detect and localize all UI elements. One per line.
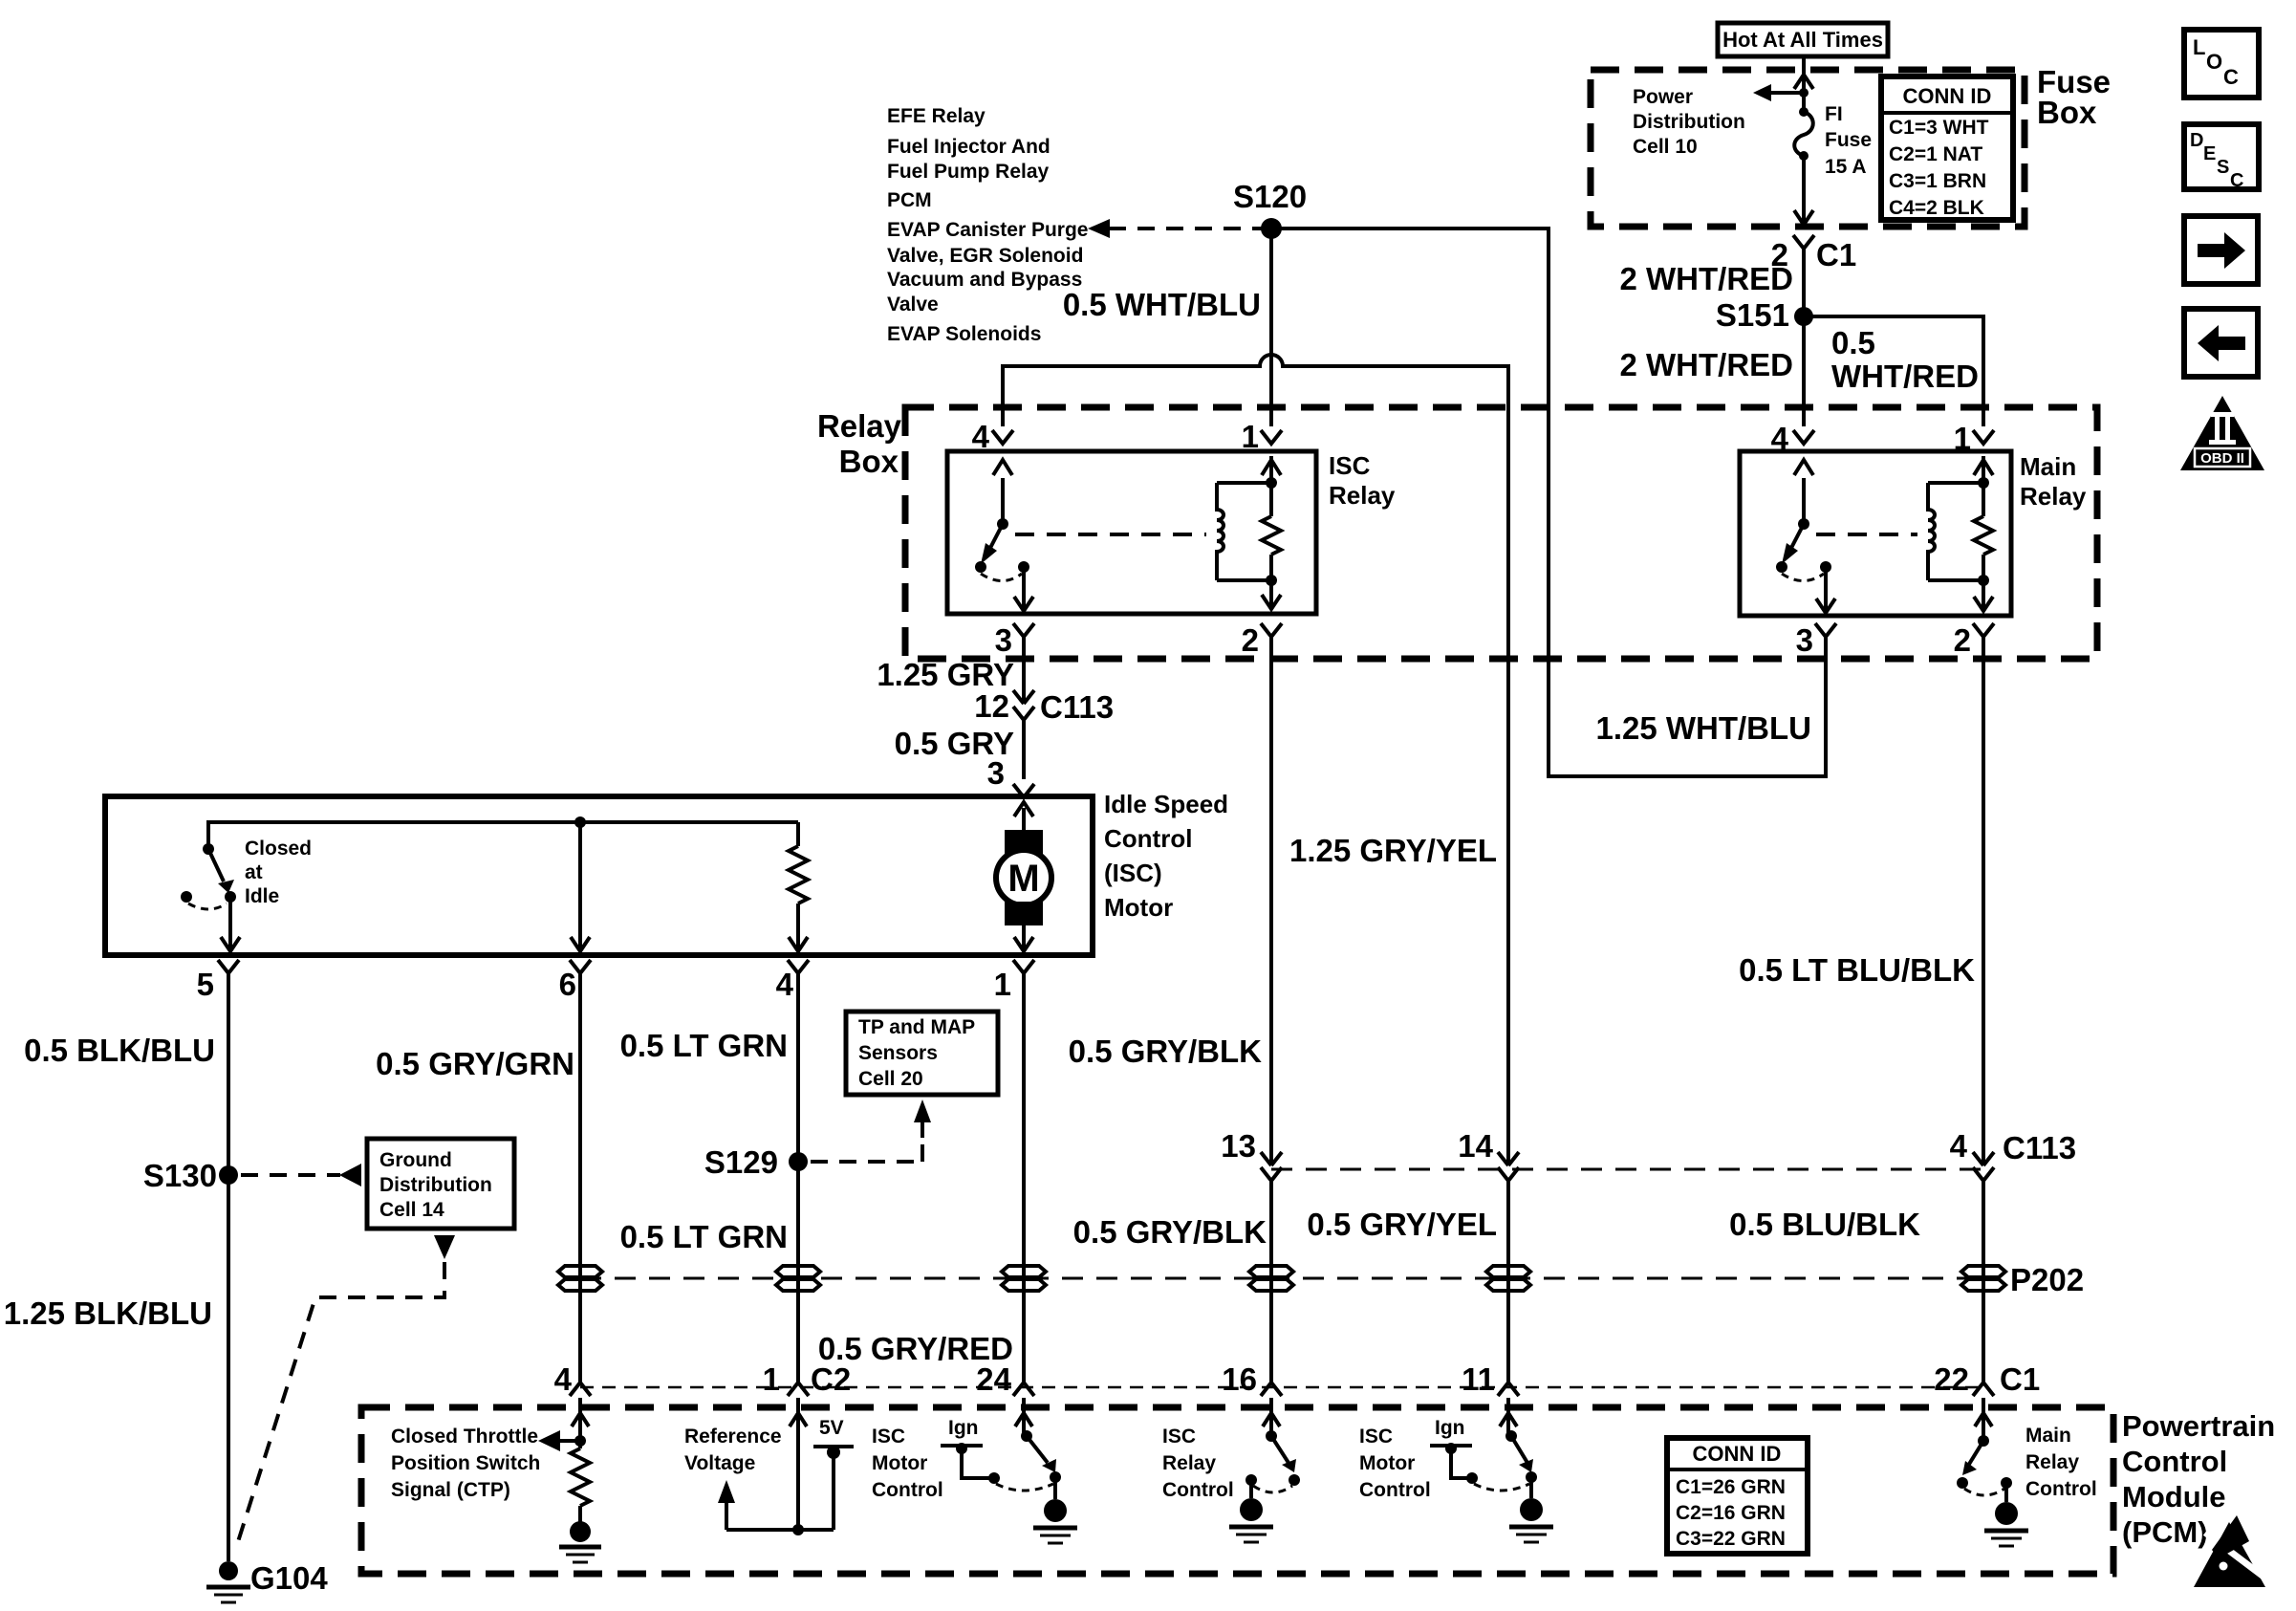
svg-text:3: 3 — [1796, 622, 1813, 658]
svg-text:2: 2 — [1242, 622, 1259, 658]
svg-text:Ground: Ground — [379, 1149, 452, 1171]
label Powertrain Control Module (PCM) — [2122, 1409, 2275, 1549]
connector C113 pin 13 glyph — [1221, 1128, 1282, 1181]
PCM box (dashed) — [361, 1407, 2113, 1574]
text EVAP loads list — [887, 105, 1088, 345]
text Closed at Idle — [245, 838, 312, 907]
wire ISC relay pin 3 down to connector C113 pin 12 — [1022, 637, 1026, 704]
PCM pin 16 chevron — [1261, 1382, 1282, 1396]
fuse box (dashed) — [1591, 70, 2025, 227]
svg-text:PCM: PCM — [887, 189, 932, 211]
CTP signal input (PCM pin 4) — [538, 1398, 589, 1451]
svg-text:Cell 10: Cell 10 — [1633, 136, 1698, 158]
ground G104 — [206, 1560, 328, 1602]
ISC relay switch output wire to pin 3 — [1014, 572, 1033, 612]
ISC relay coil resistor wire pin1-pin2 — [1262, 456, 1281, 609]
svg-text:OBD II: OBD II — [2200, 450, 2244, 467]
svg-text:0.5 BLU/BLK: 0.5 BLU/BLK — [1729, 1207, 1920, 1242]
wire ISC motor pin 1 down to PCM pin 24 — [1022, 973, 1026, 1382]
main relay pin 3 chevron — [1815, 623, 1836, 637]
svg-text:WHT/RED: WHT/RED — [1831, 359, 1979, 394]
svg-text:C1: C1 — [2000, 1361, 2040, 1397]
ISC motor box — [105, 796, 1093, 955]
dashed reference arrow from S120 to EVAP loads — [1088, 219, 1262, 238]
svg-text:G104: G104 — [250, 1560, 328, 1596]
svg-text:Control: Control — [1104, 824, 1192, 853]
label Idle Speed Control (ISC) Motor — [1104, 790, 1228, 922]
main relay switch — [1776, 460, 1831, 581]
text ISC Relay Control — [1162, 1426, 1234, 1501]
svg-text:C1=26 GRN: C1=26 GRN — [1676, 1476, 1786, 1498]
label Relay Box — [817, 408, 902, 479]
svg-text:Cell 14: Cell 14 — [379, 1199, 444, 1221]
svg-text:C113: C113 — [2003, 1130, 2076, 1165]
svg-text:4: 4 — [776, 967, 794, 1002]
P202 pass-through at GRY/RED column — [1002, 1266, 1046, 1291]
label Fuse Box — [2037, 64, 2111, 130]
svg-text:24: 24 — [976, 1361, 1011, 1397]
svg-text:1: 1 — [1242, 419, 1259, 454]
svg-text:Module: Module — [2122, 1480, 2226, 1513]
svg-text:Main: Main — [2025, 1425, 2071, 1447]
svg-text:ISC: ISC — [1329, 451, 1371, 480]
svg-text:0.5 BLK/BLU: 0.5 BLK/BLU — [24, 1033, 215, 1068]
CTP switch in ISC motor — [181, 843, 236, 909]
svg-text:L: L — [2193, 35, 2205, 59]
svg-text:11: 11 — [1462, 1361, 1495, 1397]
wire bus to pin 6 — [571, 822, 590, 951]
ISC relay coil (inductor) — [1217, 483, 1271, 580]
svg-text:4: 4 — [554, 1361, 573, 1397]
main relay coil activation dashed link — [1816, 533, 1917, 536]
svg-text:Position Switch: Position Switch — [391, 1452, 540, 1474]
wire CTP switch to pin 5 — [221, 897, 240, 951]
svg-text:1: 1 — [994, 967, 1011, 1002]
svg-text:Relay: Relay — [817, 408, 902, 444]
label ISC Relay — [1329, 451, 1396, 510]
svg-text:Sensors: Sensors — [858, 1042, 938, 1064]
svg-text:Reference: Reference — [684, 1426, 782, 1448]
svg-text:1.25 WHT/BLU: 1.25 WHT/BLU — [1595, 710, 1811, 746]
icon OBD II triangle — [2180, 396, 2264, 470]
dashed reference from S130 to Ground Distribution — [241, 1164, 361, 1186]
svg-text:Cell 20: Cell 20 — [858, 1068, 923, 1090]
svg-text:Motor: Motor — [1359, 1452, 1415, 1474]
svg-text:14: 14 — [1458, 1128, 1493, 1164]
svg-text:ISC: ISC — [872, 1426, 905, 1448]
svg-text:O: O — [2206, 50, 2222, 74]
svg-text:0.5 LT GRN: 0.5 LT GRN — [620, 1028, 788, 1063]
wire: battery feed from Hot At All Times into fuse box — [1802, 56, 1806, 112]
connector C113 pin 4 glyph — [1950, 1128, 2076, 1181]
ISC motor pin 4 chevron — [788, 960, 809, 973]
svg-text:2: 2 — [1954, 622, 1971, 658]
svg-text:(PCM): (PCM) — [2122, 1515, 2208, 1549]
svg-text:0.5 GRY/BLK: 0.5 GRY/BLK — [1069, 1034, 1262, 1069]
svg-text:1.25 BLK/BLU: 1.25 BLK/BLU — [4, 1295, 212, 1331]
svg-text:ISC: ISC — [1359, 1426, 1393, 1448]
svg-text:Control: Control — [2025, 1478, 2097, 1500]
svg-text:5V: 5V — [819, 1417, 844, 1439]
icon arrow left — [2184, 309, 2258, 377]
label FI Fuse 15 A — [1825, 103, 1872, 178]
wire S120 down to ISC relay pin 1 — [1269, 229, 1273, 426]
svg-text:1.25 GRY/YEL: 1.25 GRY/YEL — [1289, 833, 1497, 868]
wire S151 branch to main relay pin 1 — [1804, 316, 1983, 426]
arrow below Ground Distribution box — [434, 1235, 455, 1259]
svg-text:(ISC): (ISC) — [1104, 859, 1162, 887]
splice S130 — [143, 1158, 238, 1193]
svg-text:C1: C1 — [1816, 237, 1856, 272]
splice S129 — [704, 1144, 808, 1180]
connector C113 dashed line — [1271, 1168, 1983, 1171]
Hot At All Times box — [1718, 23, 1888, 56]
PCM pin 11 chevron — [1498, 1382, 1519, 1396]
svg-text:Motor: Motor — [872, 1452, 927, 1474]
svg-text:Control: Control — [1162, 1479, 1234, 1501]
branch wire to Power Distribution — [1768, 91, 1804, 95]
ISC relay pin 2 chevron — [1261, 623, 1282, 637]
text ISC Motor Control (pin 24) — [872, 1426, 943, 1501]
svg-text:Control: Control — [2122, 1445, 2227, 1478]
svg-text:13: 13 — [1221, 1128, 1256, 1164]
ground (CTP resistor) — [559, 1521, 601, 1562]
svg-text:0.5 GRY/BLK: 0.5 GRY/BLK — [1073, 1214, 1267, 1250]
svg-text:1.25 GRY: 1.25 GRY — [877, 657, 1014, 692]
main relay pin 4 chevron — [1793, 430, 1814, 444]
P202 pass-through at LT GRN column — [776, 1266, 820, 1291]
ISC relay pin 3 chevron — [1013, 623, 1034, 637]
svg-text:C113: C113 — [1040, 689, 1114, 725]
ISC motor pin 5 chevron — [218, 960, 239, 973]
svg-text:Power: Power — [1633, 86, 1693, 108]
down arrowhead above fuse box edge — [1794, 210, 1813, 225]
svg-text:0.5 GRY/GRN: 0.5 GRY/GRN — [376, 1046, 574, 1081]
pin label 22 C1 (PCM) — [1934, 1361, 2040, 1397]
ISC motor pin 1 chevron — [1013, 960, 1034, 973]
svg-text:C1=3 WHT: C1=3 WHT — [1889, 117, 1989, 139]
svg-text:Relay: Relay — [1162, 1452, 1216, 1474]
svg-text:E: E — [2203, 143, 2216, 164]
svg-text:Distribution: Distribution — [1633, 111, 1745, 133]
main relay control driver (PCM pin 22) — [1957, 1398, 2012, 1495]
CONN ID table (PCM) — [1667, 1438, 1808, 1554]
dashed route Ground Distribution to G104 — [235, 1262, 444, 1551]
svg-text:EFE Relay: EFE Relay — [887, 105, 986, 127]
main relay pin 2 chevron — [1973, 623, 1994, 637]
CTP pull-up resistor — [571, 1448, 590, 1522]
svg-text:at: at — [245, 861, 263, 883]
text Reference Voltage — [684, 1426, 782, 1474]
svg-text:S: S — [2217, 157, 2229, 178]
svg-text:1: 1 — [763, 1361, 780, 1397]
main relay switch output wire to pin 3 — [1816, 572, 1835, 614]
svg-text:C2: C2 — [811, 1361, 851, 1397]
up arrowhead on feed wire — [1794, 75, 1813, 89]
P202 pass-through at BLU/BLK column — [1961, 1266, 2005, 1291]
reference voltage input (PCM pin 1) — [726, 1398, 834, 1535]
svg-text:C2=16 GRN: C2=16 GRN — [1676, 1502, 1786, 1524]
svg-text:TP and MAP: TP and MAP — [858, 1016, 975, 1038]
TP and MAP Sensors Cell 20 box — [846, 1012, 998, 1095]
wire pin 4 down to PCM pin 1 — [796, 973, 800, 1382]
main relay coil (inductor) — [1928, 483, 1983, 580]
Ground Distribution Cell 14 box — [367, 1139, 514, 1229]
wire C113 pin 4 to PCM 22 — [1982, 1181, 1985, 1382]
svg-text:C: C — [2230, 170, 2243, 191]
ISC motor control driver (PCM pin 11) — [1466, 1398, 1537, 1491]
svg-text:FI: FI — [1825, 103, 1843, 125]
wire pin 5 to G104 — [227, 973, 230, 1561]
svg-text:12: 12 — [974, 688, 1009, 724]
svg-text:Relay: Relay — [1329, 481, 1396, 510]
svg-text:6: 6 — [559, 967, 576, 1002]
junction dot at pin 6 branch — [574, 816, 586, 828]
svg-text:Box: Box — [839, 444, 899, 479]
P202 pass-through at GRY/YEL column — [1486, 1266, 1530, 1291]
svg-text:Hot At All Times: Hot At All Times — [1722, 28, 1883, 52]
internal bus wire in ISC motor — [208, 822, 798, 849]
svg-text:22: 22 — [1934, 1361, 1969, 1397]
ISC motor pin 3 chevron — [1013, 784, 1034, 797]
wire ISC relay pin 2 down to PCM pin 16 — [1269, 637, 1273, 1165]
svg-text:Box: Box — [2037, 95, 2097, 130]
svg-text:EVAP Canister Purge: EVAP Canister Purge — [887, 219, 1088, 241]
svg-text:Ign: Ign — [1435, 1417, 1465, 1439]
svg-text:Motor: Motor — [1104, 893, 1173, 922]
svg-text:Voltage: Voltage — [684, 1452, 755, 1474]
arrow up to Reference Voltage — [718, 1480, 735, 1530]
text Main Relay Control — [2025, 1425, 2097, 1500]
icon LOC — [2184, 30, 2259, 98]
ISC relay switch — [975, 460, 1029, 581]
svg-text:1: 1 — [1954, 421, 1971, 456]
relay box (dashed) — [905, 407, 2097, 659]
connector 12 C113 glyph — [974, 688, 1114, 725]
svg-text:CONN ID: CONN ID — [1693, 1442, 1782, 1466]
svg-text:C3=22 GRN: C3=22 GRN — [1676, 1528, 1786, 1550]
label Main Relay — [2020, 452, 2087, 511]
connector C113 pin 14 glyph — [1458, 1128, 1519, 1181]
PCM pin header dashed line — [580, 1386, 1983, 1389]
svg-text:5: 5 — [197, 967, 214, 1002]
svg-text:C2=1 NAT: C2=1 NAT — [1889, 143, 1982, 165]
wire S151 down to main relay pin 4 — [1802, 316, 1806, 426]
PCM pin 24 chevron — [1013, 1382, 1034, 1396]
svg-text:Signal (CTP): Signal (CTP) — [391, 1479, 510, 1501]
svg-text:ISC: ISC — [1162, 1426, 1196, 1448]
text Power Distribution Cell 10 — [1633, 86, 1745, 158]
wire pin 14 to PCM 11 — [1506, 1181, 1510, 1382]
ground (pin 16 driver) — [1229, 1480, 1273, 1542]
svg-text:S151: S151 — [1716, 297, 1789, 333]
svg-text:CONN ID: CONN ID — [1903, 84, 1992, 108]
ISC relay box — [947, 451, 1316, 614]
svg-text:S129: S129 — [704, 1144, 778, 1180]
fuse FI 15A symbol — [1794, 107, 1813, 161]
ISC relay coil activation dashed link — [1015, 533, 1206, 536]
svg-text:0.5 WHT/BLU: 0.5 WHT/BLU — [1063, 287, 1261, 322]
svg-text:0.5 LT BLU/BLK: 0.5 LT BLU/BLK — [1739, 952, 1975, 988]
ground (pin 24 driver) — [1033, 1477, 1077, 1543]
icon arrow right — [2184, 216, 2258, 284]
left arrowhead to Power Distribution — [1753, 84, 1771, 101]
svg-text:4: 4 — [972, 419, 990, 454]
svg-text:C3=1 BRN: C3=1 BRN — [1889, 170, 1986, 192]
svg-text:Powertrain: Powertrain — [2122, 1409, 2275, 1443]
PCM pin 22 chevron — [1973, 1382, 1994, 1396]
5V terminal — [813, 1417, 854, 1530]
main relay pin 1 chevron — [1973, 430, 1994, 444]
splice S151 — [1716, 297, 1813, 333]
svg-text:Ign: Ign — [948, 1417, 979, 1439]
Ign terminal (pin 11 driver) — [1430, 1417, 1472, 1478]
ground (pin 22 driver) — [1984, 1483, 2028, 1546]
svg-text:2 WHT/RED: 2 WHT/RED — [1620, 261, 1794, 296]
svg-text:4: 4 — [1950, 1128, 1968, 1164]
ISC motor M symbol — [996, 802, 1051, 951]
svg-text:3: 3 — [987, 755, 1005, 791]
svg-text:0.5: 0.5 — [1831, 325, 1875, 360]
svg-text:D: D — [2190, 130, 2203, 151]
svg-text:M: M — [1007, 858, 1039, 900]
PCM pin 1 chevron — [788, 1382, 809, 1396]
P202 pass-through at GRY/BLK column — [1249, 1266, 1293, 1291]
svg-text:Valve, EGR Solenoid: Valve, EGR Solenoid — [887, 245, 1083, 267]
ground (pin 11 driver) — [1509, 1477, 1553, 1542]
ISC relay pin 1 chevron — [1261, 430, 1282, 444]
wire main relay pin 2 down to PCM pin 22 — [1982, 637, 1985, 1165]
pin label 1 C2 (PCM) — [763, 1361, 852, 1397]
ISC relay pin 4 chevron — [992, 430, 1013, 444]
svg-text:Fuse: Fuse — [1825, 129, 1872, 151]
main relay coil resistor wire pin1-pin2 — [1974, 456, 1993, 611]
svg-text:C: C — [2223, 65, 2239, 89]
CONN ID table (fuse box) — [1881, 76, 2013, 220]
svg-text:Fuel Injector And: Fuel Injector And — [887, 136, 1051, 158]
wire fuse to connector C1 — [1802, 156, 1806, 225]
svg-text:Relay: Relay — [2020, 482, 2087, 511]
icon DESC — [2184, 124, 2259, 191]
svg-text:Relay: Relay — [2025, 1451, 2079, 1473]
svg-text:C4=2 BLK: C4=2 BLK — [1889, 197, 1984, 219]
text ISC Motor Control (pin 11) — [1359, 1426, 1431, 1501]
dashed reference from S129 to TP and MAP box — [811, 1099, 931, 1162]
ISC motor pin 6 chevron — [570, 960, 591, 973]
svg-text:Fuel Pump Relay: Fuel Pump Relay — [887, 161, 1050, 183]
splice S120 — [1233, 179, 1307, 239]
svg-text:Control: Control — [1359, 1479, 1431, 1501]
svg-text:P202: P202 — [2010, 1262, 2084, 1297]
svg-text:Idle: Idle — [245, 885, 279, 907]
svg-text:4: 4 — [1771, 421, 1789, 456]
wire ISC relay pin 4 feed (hops over S120 wire) — [1003, 355, 1508, 1165]
svg-text:EVAP Solenoids: EVAP Solenoids — [887, 323, 1041, 345]
wire C1 to S151 — [1802, 249, 1806, 316]
label 0.5 WHT/RED — [1831, 325, 1979, 394]
svg-text:Control: Control — [872, 1479, 943, 1501]
ISC relay control driver (PCM pin 16) — [1245, 1398, 1300, 1492]
PCM pin 4 chevron — [570, 1382, 591, 1396]
svg-text:Distribution: Distribution — [379, 1174, 492, 1196]
ESD warning symbol — [2194, 1515, 2271, 1587]
svg-text:Closed: Closed — [245, 838, 312, 860]
ISC motor control driver (PCM pin 24) — [988, 1398, 1061, 1491]
wire pin 6 down to PCM pin 4 — [578, 973, 582, 1382]
resistor in ISC motor (pin 4) — [789, 822, 808, 951]
svg-text:0.5 LT GRN: 0.5 LT GRN — [620, 1219, 788, 1254]
wire pin 13 to PCM 16 — [1269, 1181, 1273, 1382]
svg-text:Closed Throttle: Closed Throttle — [391, 1426, 538, 1448]
svg-text:15 A: 15 A — [1825, 156, 1867, 178]
svg-text:3: 3 — [995, 622, 1012, 658]
main relay box — [1740, 451, 2011, 616]
connector P202 dashed line — [580, 1277, 1983, 1280]
svg-text:S120: S120 — [1233, 179, 1307, 214]
P202 pass-through at pin6 column — [558, 1266, 602, 1291]
svg-text:Vacuum and Bypass: Vacuum and Bypass — [887, 269, 1082, 291]
svg-text:S130: S130 — [143, 1158, 217, 1193]
wire C113 pin 12 down to ISC motor pin 3 — [1022, 720, 1026, 779]
svg-text:2 WHT/RED: 2 WHT/RED — [1620, 347, 1794, 382]
svg-text:Idle Speed: Idle Speed — [1104, 790, 1228, 818]
svg-text:Valve: Valve — [887, 294, 939, 316]
wire S120 branch to main relay pin 3 — [1271, 229, 1826, 776]
text Closed Throttle Position Switch Signal (CTP) — [391, 1426, 540, 1501]
svg-text:16: 16 — [1222, 1361, 1257, 1397]
svg-text:0.5 GRY/YEL: 0.5 GRY/YEL — [1307, 1207, 1497, 1242]
connector pin 2 C1 chevron — [1793, 235, 1814, 249]
Ign terminal (pin 24 driver) — [941, 1417, 992, 1478]
junction dot on feed wire — [1799, 88, 1809, 98]
svg-text:Main: Main — [2020, 452, 2076, 481]
